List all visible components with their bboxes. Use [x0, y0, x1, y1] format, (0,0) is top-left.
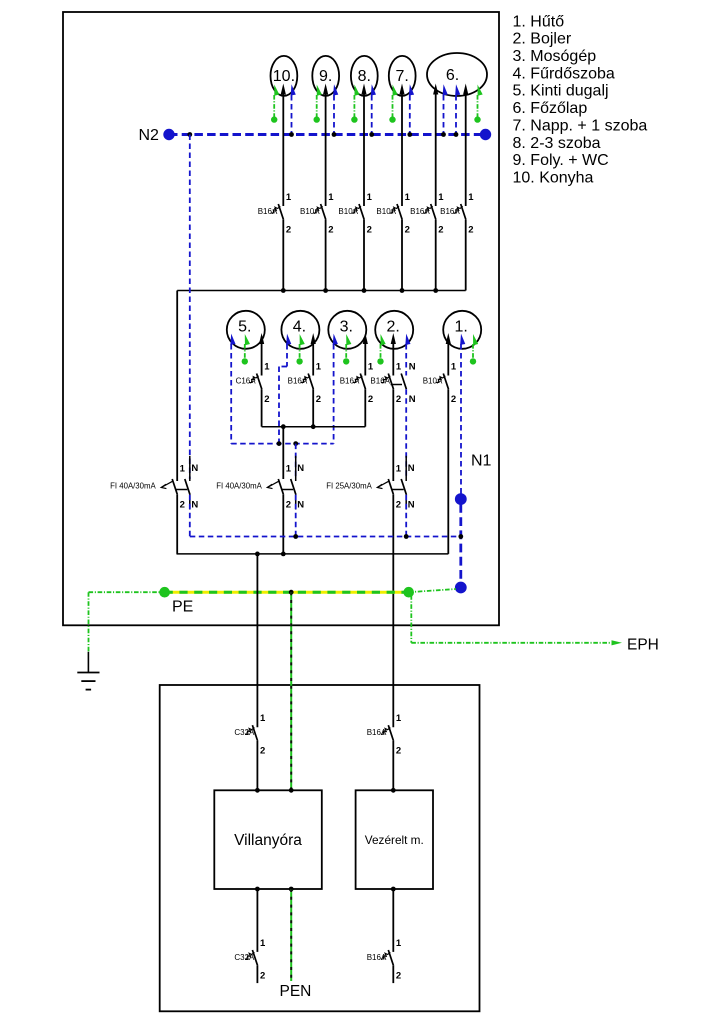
- svg-text:B16A: B16A: [367, 953, 387, 962]
- svg-text:2: 2: [396, 500, 401, 511]
- svg-text:2: 2: [286, 225, 291, 236]
- svg-text:1: 1: [438, 192, 444, 203]
- svg-text:B16A: B16A: [258, 207, 278, 216]
- svg-text:5.: 5.: [238, 319, 251, 336]
- svg-text:B16A: B16A: [340, 377, 360, 386]
- svg-text:2: 2: [396, 746, 401, 757]
- svg-text:4. Fűrdőszoba: 4. Fűrdőszoba: [513, 65, 615, 82]
- svg-text:FI 40A/30mA: FI 40A/30mA: [110, 481, 156, 490]
- svg-text:1: 1: [451, 362, 457, 373]
- svg-text:1: 1: [367, 192, 373, 203]
- svg-text:B16A: B16A: [410, 207, 430, 216]
- svg-text:Villanyóra: Villanyóra: [234, 832, 302, 849]
- svg-text:B10A: B10A: [376, 207, 396, 216]
- svg-text:1: 1: [396, 464, 402, 475]
- svg-text:B10A: B10A: [300, 207, 320, 216]
- svg-text:8.: 8.: [358, 68, 371, 85]
- svg-text:Vezérelt m.: Vezérelt m.: [365, 833, 424, 847]
- svg-text:2: 2: [264, 394, 269, 405]
- svg-text:B16A: B16A: [367, 728, 387, 737]
- svg-text:B16A: B16A: [440, 207, 460, 216]
- svg-text:1: 1: [316, 362, 322, 373]
- svg-text:2: 2: [396, 971, 401, 982]
- svg-text:1: 1: [264, 362, 270, 373]
- svg-text:1: 1: [396, 713, 402, 724]
- svg-text:1: 1: [468, 192, 474, 203]
- svg-text:2: 2: [367, 225, 372, 236]
- svg-text:2: 2: [286, 500, 291, 511]
- svg-text:6. Főzőlap: 6. Főzőlap: [513, 100, 588, 117]
- svg-text:2.: 2.: [387, 319, 400, 336]
- svg-text:PE: PE: [172, 599, 193, 616]
- svg-text:9. Foly. + WC: 9. Foly. + WC: [513, 152, 609, 169]
- svg-text:3. Mosógép: 3. Mosógép: [513, 48, 597, 65]
- svg-text:1: 1: [286, 192, 292, 203]
- svg-text:B16A: B16A: [288, 377, 308, 386]
- svg-text:2: 2: [368, 394, 373, 405]
- svg-text:N: N: [408, 463, 415, 474]
- svg-text:1: 1: [260, 938, 266, 949]
- svg-text:7.: 7.: [396, 68, 409, 85]
- svg-text:2: 2: [438, 225, 443, 236]
- svg-text:2. Bojler: 2. Bojler: [513, 31, 572, 48]
- svg-text:N: N: [191, 499, 198, 510]
- svg-text:3.: 3.: [340, 319, 353, 336]
- svg-text:5. Kinti dugalj: 5. Kinti dugalj: [513, 83, 609, 100]
- svg-text:N2: N2: [139, 127, 160, 144]
- svg-text:N1: N1: [471, 453, 492, 470]
- svg-text:1. Hűtő: 1. Hűtő: [513, 13, 565, 30]
- svg-text:7. Napp. + 1 szoba: 7. Napp. + 1 szoba: [513, 117, 648, 134]
- svg-text:1: 1: [396, 362, 402, 373]
- svg-text:N: N: [191, 463, 198, 474]
- svg-text:1: 1: [405, 192, 411, 203]
- svg-text:2: 2: [180, 500, 185, 511]
- svg-text:2: 2: [396, 394, 401, 405]
- svg-text:2: 2: [451, 394, 456, 405]
- svg-text:B10A: B10A: [338, 207, 358, 216]
- svg-text:C32A: C32A: [234, 953, 255, 962]
- svg-text:N: N: [297, 499, 304, 510]
- svg-text:2: 2: [468, 225, 473, 236]
- svg-text:2: 2: [316, 394, 321, 405]
- svg-text:2: 2: [328, 225, 333, 236]
- svg-text:C32A: C32A: [234, 728, 255, 737]
- svg-text:4.: 4.: [293, 319, 306, 336]
- svg-text:1: 1: [180, 464, 186, 475]
- svg-text:1: 1: [328, 192, 334, 203]
- svg-text:1: 1: [260, 713, 266, 724]
- svg-text:2: 2: [405, 225, 410, 236]
- svg-text:N: N: [409, 394, 416, 405]
- svg-text:1: 1: [286, 464, 292, 475]
- svg-text:C16A: C16A: [236, 377, 257, 386]
- svg-text:1: 1: [368, 362, 374, 373]
- svg-text:N: N: [297, 463, 304, 474]
- svg-text:FI 25A/30mA: FI 25A/30mA: [326, 481, 372, 490]
- svg-text:PEN: PEN: [280, 983, 312, 1000]
- svg-text:1.: 1.: [455, 319, 468, 336]
- svg-text:6.: 6.: [446, 67, 459, 84]
- svg-text:8. 2-3 szoba: 8. 2-3 szoba: [513, 135, 601, 152]
- svg-text:2: 2: [260, 746, 265, 757]
- svg-text:10. Konyha: 10. Konyha: [513, 169, 594, 186]
- svg-text:10.: 10.: [273, 68, 295, 85]
- svg-text:2: 2: [260, 971, 265, 982]
- svg-text:1: 1: [396, 938, 402, 949]
- svg-text:N: N: [408, 499, 415, 510]
- svg-text:N: N: [409, 362, 416, 373]
- svg-text:B16A: B16A: [370, 377, 390, 386]
- svg-text:FI 40A/30mA: FI 40A/30mA: [216, 481, 262, 490]
- svg-text:B10A: B10A: [423, 377, 443, 386]
- svg-text:9.: 9.: [319, 68, 332, 85]
- svg-text:EPH: EPH: [627, 636, 659, 653]
